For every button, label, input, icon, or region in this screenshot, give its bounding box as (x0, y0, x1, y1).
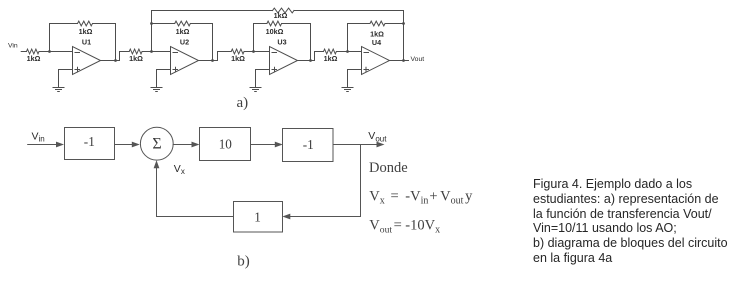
node U2 output junction (211, 59, 214, 62)
svg-text:Σ: Σ (152, 136, 161, 153)
label RF1 1kΩ (79, 27, 93, 36)
svg-text:-1: -1 (84, 134, 95, 149)
label U4 (372, 38, 381, 47)
svg-text:1kΩ: 1kΩ (176, 27, 190, 36)
arrow into block -1 (56, 142, 64, 148)
op-amp U1 (73, 47, 101, 75)
node U3 output junction (309, 59, 312, 62)
svg-text:U4: U4 (372, 38, 381, 47)
pin plus U3 (272, 67, 277, 71)
wire U3 output (298, 52, 324, 61)
wire U4 feedback top right (385, 23, 404, 25)
pin minus U4 (364, 52, 369, 54)
wire U1 feedback top left (50, 23, 78, 25)
label U3 (277, 38, 286, 47)
node Vx label (174, 163, 185, 176)
svg-text:1kΩ: 1kΩ (27, 54, 41, 63)
label RLONG 1kΩ (274, 11, 288, 20)
label R12 1kΩ (129, 54, 143, 63)
block G2 (10) (200, 128, 251, 161)
arrow into second block -1 (275, 142, 283, 148)
svg-text:1kΩ: 1kΩ (231, 54, 245, 63)
svg-text:U3: U3 (277, 38, 286, 47)
wire U2 feedback top right (190, 23, 212, 25)
resistor RF2 1kΩ (175, 21, 191, 26)
label RF4 1kΩ (370, 30, 384, 39)
svg-text:Vout: Vout (368, 130, 387, 143)
wire U2 feedback right vertical (212, 24, 214, 61)
wire U1 feedback top right (93, 23, 116, 25)
svg-text:Vx: Vx (174, 163, 185, 176)
wire long feedback top (152, 10, 404, 12)
ground U4 (342, 88, 353, 92)
resistor Rin 1kΩ (27, 49, 40, 54)
block H1 (1) (234, 202, 283, 233)
svg-text:Vin: Vin (32, 131, 45, 144)
svg-text:Vin: Vin (8, 43, 18, 50)
wire block -1 to summer (115, 144, 133, 146)
wire U4 plus input to ground (348, 70, 362, 88)
wire output to Vout arrow (333, 144, 377, 146)
node Vout label (block diagram) (368, 130, 387, 143)
resistor R12 1kΩ (129, 49, 142, 54)
wire block 10 to block -1 (251, 144, 276, 146)
wire summer to block 10 (173, 144, 192, 146)
svg-text:Donde: Donde (369, 160, 408, 176)
wire Vin to block -1 (28, 144, 57, 146)
resistor RF3 10kΩ (267, 21, 282, 26)
node A (U1 inverting input) (48, 50, 51, 53)
block G3 (-1) (283, 129, 334, 162)
svg-text:Vout: Vout (411, 56, 425, 63)
svg-text:U1: U1 (82, 38, 91, 47)
arrow into block 10 (192, 142, 200, 148)
pin minus U3 (272, 52, 277, 54)
wire U3 feedback left vertical (253, 24, 255, 52)
resistor R34 1kΩ (324, 49, 337, 54)
arrow into block 1 (282, 214, 290, 220)
resistor RLONG 1kΩ (273, 8, 295, 13)
node D (U4 inverting input) (346, 50, 349, 53)
wire U1 feedback right vertical (115, 24, 117, 61)
op-amp U4 (362, 47, 390, 75)
wire U3 feedback right vertical (310, 24, 312, 61)
node U1 output junction (114, 59, 117, 62)
label U1 (82, 38, 91, 47)
svg-text:10kΩ: 10kΩ (266, 27, 284, 36)
wire U2 output (199, 52, 232, 61)
svg-text:10: 10 (219, 137, 233, 152)
wire Rin to U1 inverting input node (39, 51, 73, 53)
svg-text:a): a) (237, 95, 249, 111)
wire U2 plus input to ground (157, 70, 171, 88)
wire feedback to block 1 (290, 216, 361, 218)
wire U4 output to Vout (390, 60, 409, 62)
label Rin 1kΩ (27, 54, 41, 63)
wire output down vertical (360, 145, 362, 217)
label R34 1kΩ (324, 54, 338, 63)
label R23 1kΩ (231, 54, 245, 63)
arrow into summer bottom (154, 160, 160, 168)
wire U1 plus input to ground (59, 70, 73, 88)
node U4 output junction (402, 59, 405, 62)
arrow Vout (377, 142, 385, 148)
label U2 (180, 38, 189, 47)
op-amp U3 (270, 47, 298, 75)
wire long feedback right vertical (403, 11, 405, 61)
pin minus U2 (173, 52, 178, 54)
figure caption (533, 177, 728, 266)
svg-text:1kΩ: 1kΩ (274, 11, 288, 20)
wire U1 feedback left vertical (49, 24, 51, 52)
resistor RF1 1kΩ (78, 21, 93, 26)
node U4 feedback tap (402, 22, 405, 25)
svg-text:Vout=-10Vx: Vout=-10Vx (369, 218, 440, 236)
resistor RF4 1kΩ (370, 21, 385, 26)
pin minus U1 (75, 52, 80, 54)
wire U2 feedback left vertical and long feedback left vertical (151, 11, 153, 52)
ground U1 (53, 88, 64, 92)
resistor R23 1kΩ (231, 49, 244, 54)
node long feedback tap (150, 22, 153, 25)
node Vin label (8, 43, 18, 50)
summing junction Σ (140, 127, 173, 160)
svg-text:b): b) (237, 254, 250, 270)
arrow into summer (132, 142, 140, 148)
ground U2 (151, 88, 162, 92)
wire R23 to U3 inverting input (244, 51, 269, 53)
svg-text:-1: -1 (303, 137, 314, 152)
wire U2 feedback top left (152, 23, 175, 25)
node C (U3 inverting input) (252, 50, 255, 53)
block G1 (-1) (65, 128, 115, 160)
node Vout label (411, 56, 425, 63)
wire R34 to U4 inverting input (336, 51, 361, 53)
wire U3 plus input to ground (256, 70, 270, 88)
wire U1 output (101, 52, 130, 61)
wire U4 feedback top left (348, 23, 371, 25)
wire block 1 to summer bottom (157, 168, 234, 217)
node B (U2 inverting input) (150, 50, 153, 53)
label RF2 1kΩ (176, 27, 190, 36)
svg-text:1kΩ: 1kΩ (79, 27, 93, 36)
svg-text:Vx=-Vin+Vouty: Vx=-Vin+Vouty (369, 189, 473, 207)
svg-text:1kΩ: 1kΩ (324, 54, 338, 63)
pin plus U2 (173, 67, 178, 71)
node Vin label (block diagram) (32, 131, 45, 144)
wire U3 feedback top left (254, 23, 267, 25)
ground U3 (250, 88, 261, 92)
svg-text:U2: U2 (180, 38, 189, 47)
op-amp U2 (171, 47, 199, 75)
svg-text:1: 1 (254, 210, 261, 225)
svg-text:1kΩ: 1kΩ (129, 54, 143, 63)
wire R12 to U2 inverting input (142, 51, 170, 53)
wire U3 feedback top right (282, 23, 311, 25)
pin plus U1 (75, 67, 80, 71)
wire Vin input (21, 51, 26, 53)
wire U4 feedback left vertical (347, 24, 349, 52)
pin plus U4 (364, 67, 369, 71)
label RF3 10kΩ (266, 27, 284, 36)
